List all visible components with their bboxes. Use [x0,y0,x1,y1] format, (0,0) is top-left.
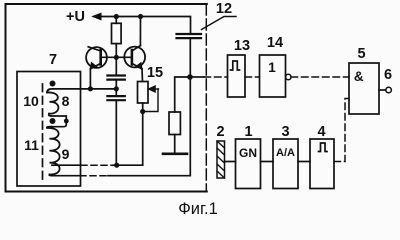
svg-text:6: 6 [384,67,392,83]
block 1 (generator GN) [236,139,261,189]
svg-text:2: 2 [216,124,224,140]
node: bases junction [114,55,119,60]
svg-text:1: 1 [268,60,276,75]
svg-text:12: 12 [216,1,232,17]
inverter bubble of block 14 [286,74,291,79]
polarity dot winding 8 [50,81,56,87]
polarity dot winding 9 [50,118,56,124]
transistor VT1 (left) [86,47,116,69]
+U arrow [93,13,101,20]
wire block 13 to block 14 [245,76,260,78]
node: winding tap [64,119,69,124]
winding 8 [47,92,58,113]
pulse symbol in block 4 [319,143,328,152]
svg-text:9: 9 [62,146,70,162]
enclosure box 12 right edge (dash-dot) [205,4,207,192]
svg-text:14: 14 [267,35,283,51]
wire VT2 emitter to R15 [141,69,144,82]
svg-text:A/A: A/A [276,147,295,159]
wire block 14 to AND gate 5 [291,76,349,78]
winding 9 upper terminal wire to R15 bottom rail [52,164,81,166]
winding 8 bottom to tap [49,114,67,127]
node: C1/C2 junction [114,86,119,91]
svg-text:11: 11 [24,137,39,153]
svg-text:7: 7 [49,52,57,68]
ground [163,153,187,156]
svg-text:1: 1 [244,124,252,140]
svg-text:13: 13 [234,38,250,54]
capacitor C1 [107,57,124,88]
core (dash line) [42,84,44,179]
winding 9 bottom return wire to output node [49,175,80,176]
load resistor to ground [169,77,190,153]
node: rail / VT2 collector [138,14,143,19]
wire block 4 to AND gate second input (dash-dot) [334,99,349,162]
svg-text:5: 5 [357,46,365,62]
wire oscillator output to block 13 [190,76,204,78]
node: emitter / tap wire [88,86,93,91]
svg-text:3: 3 [281,124,289,140]
node: rail / C2 bottom [114,163,119,168]
wire VT2 collector to rail [139,17,141,46]
+U supply rail wire [94,17,191,34]
node: oscillator output junction [187,74,193,80]
AND gate block 5 [349,63,379,114]
transistor VT2 (right) [116,46,145,69]
block 4 (pulse shaper) [310,139,334,189]
block 3 (A/A converter) [273,139,298,189]
svg-text:Фиг.1: Фиг.1 [178,200,218,216]
block 14 (inverter) [260,55,286,97]
resistor R1 (collector load) [115,17,117,24]
wire R1 bottom to base node [115,44,117,58]
enclosure box 12 bottom edge [6,191,207,193]
wire VT1 emitter down [89,69,91,89]
pulse symbol in block 13 [231,61,240,70]
transformer box 7 [17,72,81,187]
svg-text:4: 4 [317,124,325,140]
hatched block 2 (controlled object) [217,141,225,178]
enclosure box 12 top edge [6,4,207,192]
svg-text:GN: GN [239,146,257,160]
node: rail / resistor R1 [114,14,119,19]
resistor 15 (variable) [138,82,159,166]
output wire of block 5 [379,89,386,91]
wire block 3 to block 4 [298,161,310,163]
output terminal 6 [386,87,392,93]
svg-text:10: 10 [23,93,39,109]
wire winding8-top / VT1 emitter / C1-C2 tap [47,89,116,93]
block 13 (pulse shaper) [228,55,246,97]
capacitor C2 [107,89,124,166]
svg-text:+U: +U [66,9,85,25]
leader line 12 [202,17,237,30]
svg-text:8: 8 [62,93,70,109]
svg-text:15: 15 [147,65,163,81]
wire block 1 to block 3 [261,161,274,163]
capacitor C3 (to output node) [177,34,202,77]
svg-text:&: & [354,69,364,84]
winding 9 [47,127,60,175]
wire block 2 to block 1 [225,161,236,163]
